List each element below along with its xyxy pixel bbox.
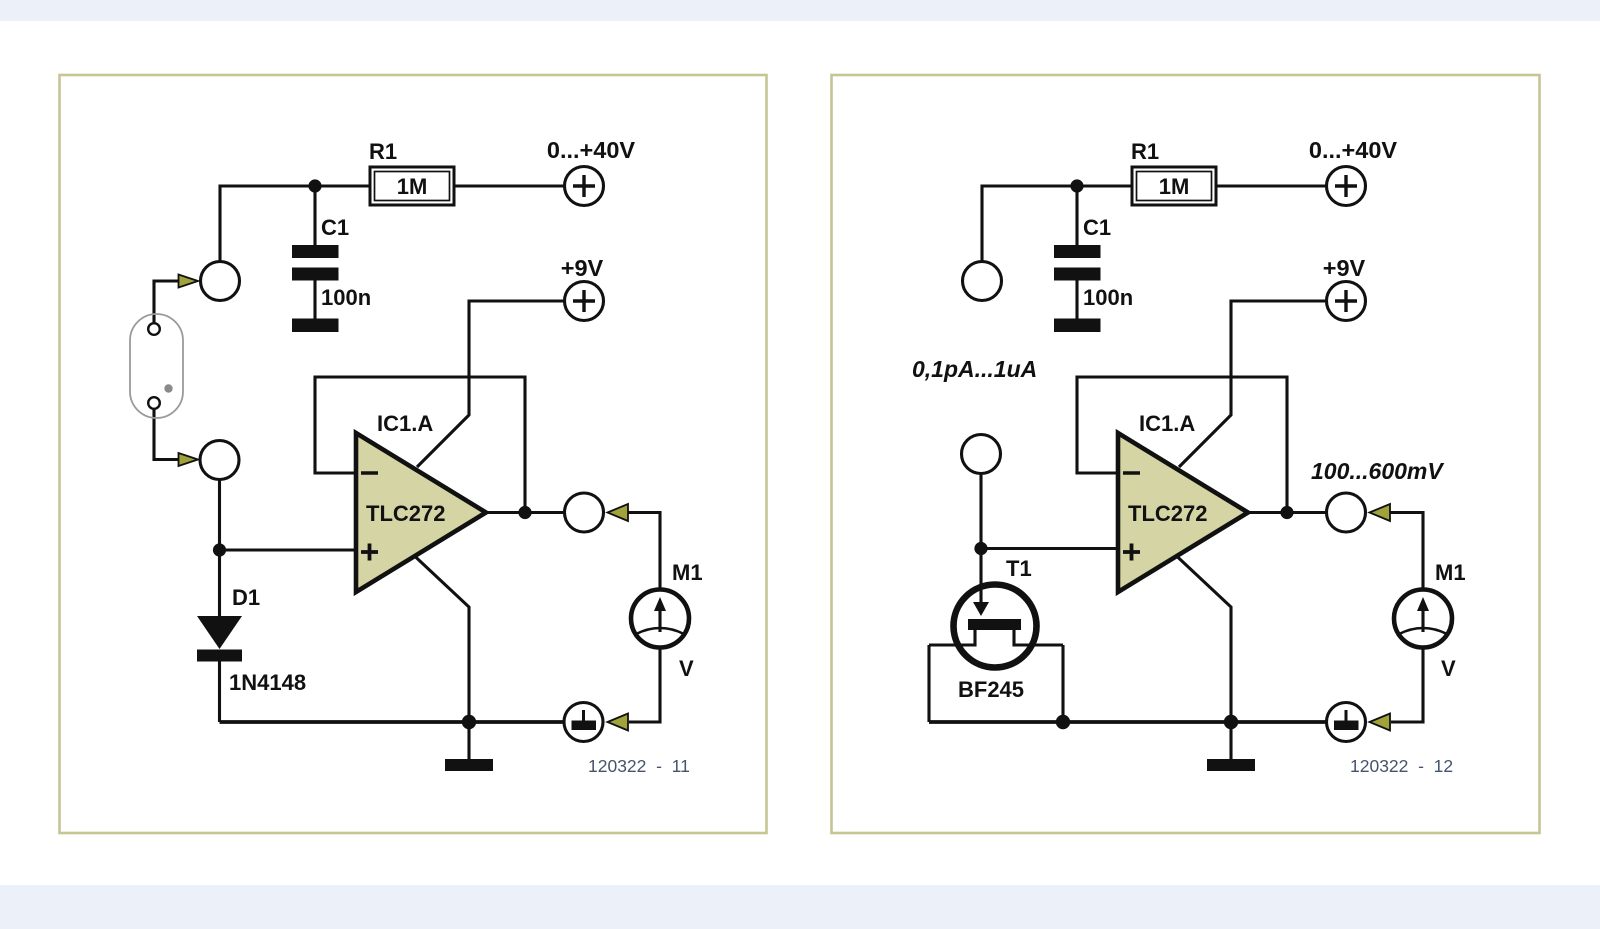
wire: ground stub below bus	[467, 722, 470, 759]
wire: gate feed from input terminal	[979, 474, 982, 561]
arrow into top input terminal	[179, 275, 199, 288]
svg-text:R1: R1	[369, 139, 397, 164]
wire: T1 loop right vertical	[1061, 645, 1064, 722]
svg-text:M1: M1	[672, 560, 703, 585]
arrow into output terminal (right)	[1370, 504, 1391, 521]
wire: input top terminal up and right to R1	[220, 186, 370, 262]
ground terminal circle	[564, 703, 603, 742]
ground symbol	[445, 759, 493, 771]
wire: output terminal to meter	[627, 513, 660, 590]
input terminal top	[201, 262, 240, 301]
wire: connector top pin to input terminal	[154, 281, 182, 324]
output terminal circle	[565, 493, 604, 532]
right panel frame	[832, 75, 1540, 833]
wire: input top terminal up and right to R1 (right)	[982, 186, 1132, 262]
svg-text:+9V: +9V	[1323, 255, 1366, 281]
junction node on ground bus	[462, 715, 476, 729]
svg-text:TLC272: TLC272	[1128, 501, 1207, 526]
svg-text:0...+40V: 0...+40V	[547, 137, 636, 163]
wire: op-amp output	[487, 511, 564, 514]
top band	[0, 0, 1600, 21]
wire: output terminal to meter (right)	[1389, 513, 1423, 590]
svg-text:1M: 1M	[397, 174, 428, 199]
svg-text:0...+40V: 0...+40V	[1309, 137, 1398, 163]
junction node on ground bus at op-amp	[1224, 715, 1238, 729]
svg-text:120322 - 12: 120322 - 12	[1350, 756, 1453, 776]
svg-text:V: V	[1441, 656, 1456, 681]
wire: meter to ground terminal (right)	[1391, 648, 1423, 722]
wire: bus (right)	[929, 720, 1326, 724]
op-amp U2 IC1.A (right)	[1118, 411, 1248, 592]
capacitor C1	[292, 215, 371, 332]
op-amp U1 IC1.A	[356, 411, 486, 592]
ground symbol (right)	[1207, 759, 1255, 771]
svg-text:120322 - 11: 120322 - 11	[588, 756, 690, 776]
junction node at R1/C1	[308, 179, 321, 192]
svg-text:0,1pA...1uA: 0,1pA...1uA	[912, 356, 1037, 382]
input terminal gate (right)	[962, 435, 1001, 474]
wire: junction down to C1 (right)	[1075, 186, 1078, 245]
svg-text:TLC272: TLC272	[366, 501, 445, 526]
svg-text:T1: T1	[1006, 556, 1032, 581]
junction node at non-inverting input (right)	[974, 542, 987, 555]
left panel frame	[60, 75, 767, 833]
svg-text:1N4148: 1N4148	[229, 670, 306, 695]
wire: feedback loop (right)	[1077, 377, 1287, 513]
junction node on ground bus at T1	[1056, 715, 1070, 729]
wire: meter to ground terminal	[629, 648, 660, 722]
resistor R1	[369, 139, 454, 205]
input terminal lower	[200, 441, 239, 480]
resistor R1 (right)	[1131, 139, 1216, 205]
svg-text:R1: R1	[1131, 139, 1159, 164]
svg-text:C1: C1	[1083, 215, 1111, 240]
transistor Q1 T1 BF245	[929, 556, 1063, 702]
arrow into lower input terminal	[179, 453, 199, 466]
connector pin bottom	[148, 397, 160, 409]
wire: op-amp V- diagonal to ground (right)	[1176, 556, 1231, 723]
terminal +9V (right)	[1323, 255, 1366, 321]
capacitor C1 (right)	[1054, 215, 1133, 332]
connector index dot	[164, 384, 172, 392]
wire: op-amp output (right)	[1249, 511, 1326, 514]
svg-text:100n: 100n	[321, 285, 371, 310]
svg-text:V: V	[679, 656, 694, 681]
diode D1	[197, 585, 306, 695]
svg-text:100n: 100n	[1083, 285, 1133, 310]
wire: bus	[220, 720, 565, 724]
junction node at op-amp output	[518, 506, 531, 519]
meter M1	[631, 560, 703, 681]
probe connector body	[130, 314, 183, 418]
svg-text:IC1.A: IC1.A	[377, 411, 433, 436]
arrow into ground terminal (right)	[1370, 714, 1391, 731]
meter M1 (right)	[1394, 560, 1466, 681]
arrow into output terminal	[608, 504, 629, 521]
wire: non-inverting input (right)	[981, 547, 1117, 550]
svg-text:D1: D1	[232, 585, 260, 610]
input terminal top (right)	[963, 262, 1002, 301]
wire: D1 branch vertical	[218, 480, 221, 616]
wire: feedback loop	[315, 377, 525, 513]
terminal +9V	[561, 255, 604, 321]
wire: +9V terminal to op-amp V+ (right)	[1179, 301, 1326, 467]
wire: R1 to 0...+40V terminal	[454, 184, 564, 187]
svg-text:M1: M1	[1435, 560, 1466, 585]
svg-text:100...600mV: 100...600mV	[1311, 458, 1444, 484]
svg-text:IC1.A: IC1.A	[1139, 411, 1195, 436]
wire: non-inverting input	[220, 548, 356, 551]
junction node at R1/C1 (right)	[1070, 179, 1083, 192]
terminal 0...+40V (right)	[1309, 137, 1398, 206]
wire: +9V terminal to op-amp V+	[417, 301, 564, 467]
svg-text:C1: C1	[321, 215, 349, 240]
connector pin top	[148, 323, 160, 335]
bottom band	[0, 885, 1600, 929]
junction node at op-amp output (right)	[1280, 506, 1293, 519]
wire: R1 to 0...+40V terminal (right)	[1216, 184, 1326, 187]
wire: T1 loop left vertical	[927, 645, 930, 722]
svg-text:BF245: BF245	[958, 677, 1024, 702]
junction node at non-inverting input	[213, 543, 226, 556]
terminal 0...+40V	[547, 137, 636, 206]
wire: connector bottom pin to lower input terminal	[154, 408, 182, 460]
svg-text:+9V: +9V	[561, 255, 604, 281]
wire: D1 to bus	[218, 661, 221, 722]
ground terminal circle (right)	[1327, 703, 1366, 742]
wire: op-amp V- diagonal to ground	[414, 556, 469, 723]
output terminal circle (right)	[1327, 493, 1366, 532]
wire: ground stub below bus (right)	[1229, 722, 1232, 759]
arrow into ground terminal	[608, 714, 629, 731]
svg-text:1M: 1M	[1159, 174, 1190, 199]
wire: junction down to C1	[313, 186, 316, 245]
